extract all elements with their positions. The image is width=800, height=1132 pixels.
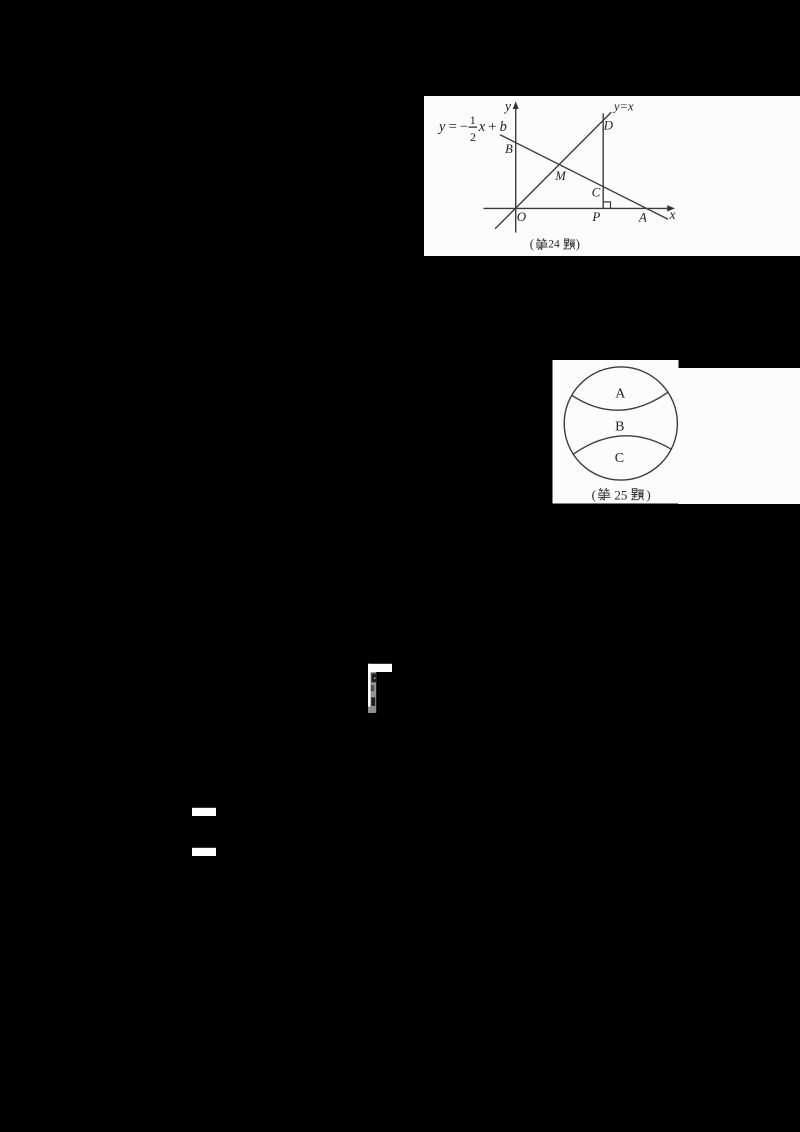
svg-text:): ) (576, 237, 580, 251)
line y=x (496, 113, 612, 229)
y-axis arrowhead (513, 101, 519, 109)
svg-text:A: A (615, 387, 626, 402)
circle (564, 367, 677, 480)
right-angle mark at P (604, 202, 611, 209)
svg-text:M: M (554, 169, 566, 183)
upper chord arc (572, 392, 668, 410)
svg-text:y = −: y = − (437, 119, 468, 135)
equation label y = -1/2 x + b (437, 113, 507, 144)
svg-text:): ) (646, 487, 650, 502)
svg-text:x + b: x + b (478, 119, 507, 135)
stray white corner mark (368, 664, 392, 713)
svg-text:2: 2 (470, 130, 476, 144)
y-axis (515, 106, 517, 232)
svg-text:x: x (669, 207, 676, 222)
svg-text:1: 1 (470, 113, 476, 127)
figure 24 white panel (424, 96, 800, 256)
line y=-x/2+b (501, 135, 668, 219)
caption (第 25 题) (592, 487, 651, 502)
stray white dash 1 (192, 808, 216, 816)
svg-text:D: D (603, 118, 614, 133)
figure 25 white panel (right extension) (678, 368, 800, 504)
svg-text:(: ( (530, 237, 534, 251)
svg-text:y=x: y=x (612, 100, 634, 114)
svg-text:24: 24 (548, 239, 560, 251)
x-axis arrowhead (667, 205, 675, 211)
svg-text:B: B (615, 419, 624, 434)
svg-text:P: P (591, 209, 600, 224)
figure 25 white panel (main) (553, 360, 679, 504)
svg-text:C: C (592, 185, 601, 200)
svg-text:A: A (638, 210, 647, 225)
svg-text:25: 25 (614, 487, 627, 502)
svg-text:B: B (505, 142, 513, 156)
svg-text:C: C (615, 451, 624, 466)
x-axis (484, 207, 669, 209)
svg-text:O: O (517, 209, 527, 224)
lower chord arc (573, 436, 671, 454)
stray white dash 2 (192, 848, 216, 856)
caption (第 24 题) (530, 237, 580, 251)
svg-text:y: y (503, 99, 511, 114)
segment DP vertical (602, 114, 604, 208)
svg-text:(: ( (592, 487, 596, 502)
